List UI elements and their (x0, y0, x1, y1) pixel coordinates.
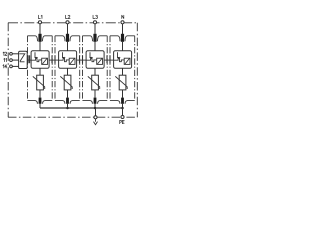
module slot boundary line x=82.5 (82, 36, 84, 101)
plug-in contact pin bottom L2 (66, 98, 69, 104)
disconnector monitor box L3 (86, 51, 104, 68)
module slot boundary line x=110.0 (109, 36, 111, 101)
monitor varistor box L3 (97, 58, 103, 64)
monitor varistor box L1 (42, 58, 48, 64)
varistor diagonal stroke L3 (88, 76, 100, 89)
wire varistor to bottom pin L3 (94, 90, 96, 98)
thermal disconnector wave L1 (31, 58, 42, 61)
linkage coupling bar x=107.0 (106, 55, 108, 63)
wire L3 terminal to plug pin (94, 23, 96, 34)
device boundary frame left edge (7, 23, 9, 117)
thermal disconnector wave L3 (86, 58, 97, 61)
thermal disconnector wave L2 (59, 58, 70, 61)
linkage coupling bar x=82.5 (82, 55, 84, 63)
varistor body L1 (37, 75, 44, 90)
linkage coupling bar x=55.0 (54, 55, 56, 63)
terminal label L2 (66, 15, 68, 18)
device boundary frame top edge (8, 22, 138, 24)
varistor body N (119, 75, 126, 90)
wire pin to monitor box L2 (67, 42, 69, 51)
wire N terminal to plug pin (122, 23, 124, 34)
junction dot on PE bus L2 (66, 107, 69, 110)
wire monitor box to varistor L2 (67, 68, 69, 75)
module top edge right segment L2 (70, 36, 80, 42)
plug-in contact pin top L2 (66, 34, 69, 42)
module bottom edge left segment L1 (28, 101, 38, 104)
varistor diagonal stroke N (115, 76, 127, 89)
wire bus to PE terminal (122, 108, 124, 116)
varistor diagonal stroke L2 (60, 76, 72, 89)
terminal label L1 (38, 15, 40, 18)
module bottom edge right segment L2 (70, 101, 80, 104)
wire FM terminal 12 to switch box (12, 53, 18, 55)
wire bottom pin to PE bus L3 (94, 104, 96, 108)
junction dot on PE bus L3 (94, 107, 97, 110)
junction dot on PE bus N (121, 107, 124, 110)
module top edge right segment N (125, 36, 135, 42)
terminal node L3 (93, 21, 96, 24)
module bottom edge right segment N (125, 101, 135, 104)
module top edge left segment N (110, 36, 120, 42)
disconnector monitor box N (114, 51, 132, 68)
disconnector actuation arrow N (118, 52, 120, 57)
linkage coupling bar x=28.1 (27, 55, 29, 63)
mechanical linkage wire segment x27.2-31.1 (27, 59, 31, 61)
wire FM terminal 11 to switch box (12, 59, 18, 61)
linkage coupling bar x=79.5 (79, 55, 81, 63)
terminal label N (122, 15, 124, 18)
disconnector monitor box L2 (59, 51, 77, 68)
wire pin to monitor box L1 (39, 42, 41, 51)
plug-in contact pin bottom L3 (94, 98, 97, 104)
FM switch box U1 (19, 51, 28, 68)
wire bus to earth terminal (95, 108, 97, 116)
plug-in contact pin top L1 (38, 34, 41, 42)
mechanical linkage wire segment x49.3-58.6 (49, 59, 58, 61)
wire varistor to bottom pin L2 (67, 90, 69, 98)
earth direction arrow (94, 119, 98, 125)
PE terminal node (121, 115, 124, 118)
FM terminal node 12 (10, 52, 13, 55)
module bottom edge left segment L2 (55, 101, 65, 104)
device boundary frame right edge (136, 23, 138, 117)
linkage coupling bar x=110.0 (109, 55, 111, 63)
module slot boundary line x=107.2 (106, 36, 108, 101)
module top edge left segment L3 (83, 36, 93, 42)
plug-in contact pin bottom N (121, 98, 124, 104)
wire pin to monitor box L3 (94, 42, 96, 51)
monitor varistor diagonal L2 (70, 58, 75, 64)
wire FM terminal 14 to switch box (12, 65, 18, 67)
monitor varistor diagonal N (125, 58, 130, 64)
FM terminal node 14 (10, 65, 13, 68)
linkage coupling bar x=52.0 (51, 55, 53, 63)
module top edge left segment L1 (28, 36, 38, 42)
plug-in contact pin bottom L1 (39, 98, 42, 104)
module bottom edge left segment L3 (83, 101, 93, 104)
module bottom edge right segment L3 (98, 101, 108, 104)
module bottom edge right segment L1 (43, 101, 53, 104)
module slot boundary line x=55.0 (54, 36, 56, 101)
terminal label L3 (93, 15, 95, 18)
device boundary frame bottom edge (8, 116, 138, 118)
varistor diagonal stroke L1 (33, 76, 45, 89)
disconnector actuation arrow L2 (63, 52, 65, 57)
module slot boundary line x=134.7 (134, 36, 136, 101)
wire bottom pin to PE bus N (122, 104, 124, 108)
wire bottom pin to PE bus L2 (67, 104, 69, 108)
mechanical linkage wire segment x104.3-113.6 (104, 59, 113, 61)
module bottom edge left segment N (110, 101, 120, 104)
wire bottom pin to PE bus L1 (39, 104, 41, 108)
mechanical linkage wire segment x76.8-86.1 (77, 59, 86, 61)
thermal disconnector wave N (114, 58, 125, 61)
module slot boundary line x=79.7 (79, 36, 81, 101)
FM terminal label 14 (2, 65, 5, 68)
FM changeover contact blade (19, 54, 25, 62)
plug-in contact pin top L3 (93, 34, 96, 42)
monitor varistor box L2 (69, 58, 75, 64)
monitor varistor box N (124, 58, 130, 64)
PE label (120, 120, 122, 123)
terminal node L2 (66, 21, 69, 24)
module top edge right segment L3 (98, 36, 108, 42)
module slot boundary line x=27.5 (27, 36, 29, 101)
varistor body L3 (92, 75, 99, 90)
earth terminal node (94, 116, 97, 119)
module top edge right segment L1 (43, 36, 53, 42)
disconnector monitor box L1 (31, 51, 49, 68)
wire varistor to bottom pin L1 (39, 90, 41, 98)
module top edge left segment L2 (55, 36, 65, 42)
varistor body L2 (64, 75, 71, 90)
monitor varistor diagonal L3 (97, 58, 102, 64)
disconnector actuation arrow L3 (90, 52, 92, 57)
wire monitor box to varistor L3 (94, 68, 96, 75)
FM terminal label 12 (2, 52, 5, 55)
wire monitor box to varistor N (122, 68, 124, 75)
linkage coupling bar x=29.6 (29, 55, 31, 63)
monitor varistor diagonal L1 (42, 58, 47, 64)
wire L2 terminal to plug pin (67, 23, 69, 34)
FM terminal node 11 (10, 59, 13, 62)
terminal node L1 (38, 21, 41, 24)
wire monitor box to varistor L1 (39, 68, 41, 75)
disconnector actuation arrow L1 (35, 52, 37, 57)
PE bus (40, 107, 123, 109)
plug-in contact pin top N (121, 34, 124, 42)
FM terminal label 11 (3, 58, 6, 61)
wire L1 terminal to plug pin (39, 23, 41, 34)
wire pin to monitor box N (122, 42, 124, 51)
wire varistor to bottom pin N (122, 90, 124, 98)
terminal node N (121, 21, 124, 24)
module slot boundary line x=52.2 (51, 36, 53, 101)
